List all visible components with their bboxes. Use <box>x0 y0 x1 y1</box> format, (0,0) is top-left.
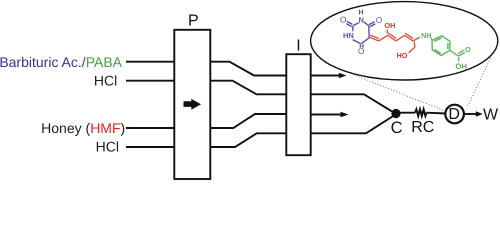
PABA group bonds (green) <box>431 36 465 62</box>
barbituric acid ring bonds <box>346 21 375 47</box>
callout ellipse <box>311 2 498 80</box>
wire P to I line 4 <box>210 133 286 147</box>
svg-text:W: W <box>483 107 499 124</box>
wire inlet line 2 <box>126 80 175 82</box>
arrowhead to waste <box>476 111 483 116</box>
callout dotted line right <box>467 58 491 108</box>
svg-text:O: O <box>376 15 383 25</box>
reaction coil RC zigzag <box>415 109 427 116</box>
svg-text:Honey (HMF): Honey (HMF) <box>41 120 125 136</box>
injector I box <box>286 54 310 155</box>
wire node C to RC <box>396 112 415 114</box>
arrowhead out 3 <box>341 112 349 118</box>
barbituric ring atom labels <box>340 10 383 56</box>
svg-text:N: N <box>358 16 363 25</box>
node C confluence point <box>391 109 400 118</box>
wire inlet line 3 <box>126 127 175 129</box>
svg-text:D: D <box>448 106 460 123</box>
svg-text:HO: HO <box>397 51 408 60</box>
wire inlet line 1 <box>126 61 175 63</box>
svg-text:I: I <box>296 38 300 55</box>
wire I out arrow 1 <box>311 75 340 77</box>
svg-text:OH: OH <box>455 62 467 71</box>
arrowhead out 1 <box>339 73 347 79</box>
pump P box <box>174 30 210 179</box>
svg-text:Barbituric Ac./PABA: Barbituric Ac./PABA <box>0 54 123 70</box>
svg-text:HCl: HCl <box>94 73 117 89</box>
svg-text:HCl: HCl <box>96 139 119 155</box>
pump flow arrow <box>184 99 202 110</box>
wire I out line 4 to node C <box>311 116 394 134</box>
svg-text:RC: RC <box>411 119 434 136</box>
wire RC to D <box>427 112 447 115</box>
svg-text:OH: OH <box>385 21 396 30</box>
wire inlet line 4 <box>126 146 175 148</box>
wire P to I line 3 <box>210 114 286 128</box>
wire I out line 2 to node C <box>311 94 394 112</box>
detector D circle <box>445 105 464 124</box>
svg-text:HN: HN <box>343 31 354 40</box>
svg-text:O: O <box>340 15 347 25</box>
svg-text:C: C <box>391 119 403 137</box>
svg-text:O: O <box>358 46 365 56</box>
svg-text:P: P <box>188 12 199 29</box>
callout dotted line left <box>351 74 446 112</box>
HMF chromophore chain bonds (red) <box>370 30 420 54</box>
svg-text:NH: NH <box>421 31 431 40</box>
svg-text:O: O <box>465 45 471 54</box>
wire P to I line 1 <box>210 62 286 76</box>
wire I out arrow 3 <box>311 114 342 116</box>
wire P to I line 2 <box>210 81 286 95</box>
wire D to waste arrow <box>464 113 477 115</box>
